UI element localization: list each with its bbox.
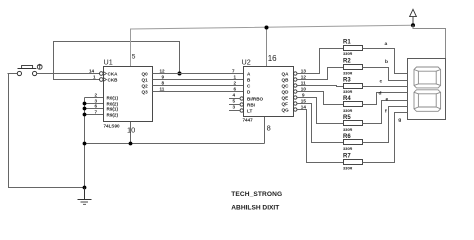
wire Q1 to U2 B xyxy=(153,79,244,81)
svg-text:16: 16 xyxy=(268,54,277,63)
IC U1 74LS90 body xyxy=(104,67,153,122)
svg-text:10: 10 xyxy=(301,86,307,91)
svg-text:14: 14 xyxy=(89,69,95,74)
wire U1 reset pins bus xyxy=(85,98,104,188)
svg-text:R0(1): R0(1) xyxy=(107,95,119,100)
wire U2 pin16 drop from VCC rail xyxy=(266,27,268,66)
svg-text:8: 8 xyxy=(267,124,271,133)
wire R2 to display segment b xyxy=(362,68,407,81)
IC U2 7447 body xyxy=(244,67,294,117)
svg-text:5: 5 xyxy=(233,99,236,104)
power terminal VCC arrow xyxy=(410,9,417,25)
svg-text:1: 1 xyxy=(93,75,96,80)
svg-text:11: 11 xyxy=(301,80,306,85)
svg-text:R9(1): R9(1) xyxy=(107,106,119,111)
svg-text:b: b xyxy=(385,59,388,65)
junction dot U1 pin10 at bus xyxy=(129,142,133,146)
svg-text:TECH_STRONG: TECH_STRONG xyxy=(231,191,282,198)
svg-text:f: f xyxy=(385,109,387,115)
wire QE to R5 xyxy=(297,98,343,124)
U2 pins 4 5 3 numbers xyxy=(233,93,236,110)
svg-text:R7: R7 xyxy=(343,154,351,160)
svg-text:CKA: CKA xyxy=(108,71,119,76)
svg-text:12: 12 xyxy=(301,74,307,79)
node junction dot Q0 to CKB xyxy=(178,72,182,76)
svg-text:U2: U2 xyxy=(242,58,251,67)
svg-text:74LS90: 74LS90 xyxy=(104,124,121,129)
svg-text:Q1: Q1 xyxy=(142,77,149,82)
svg-text:R5: R5 xyxy=(343,115,351,121)
ground symbol xyxy=(78,188,92,205)
svg-text:4: 4 xyxy=(233,93,236,98)
svg-text:9: 9 xyxy=(302,92,305,97)
wire Q0 to U2 A xyxy=(153,73,244,75)
svg-text:g: g xyxy=(398,118,401,123)
wire R4 to display segment d xyxy=(362,93,407,105)
junction dot VCC at power terminal xyxy=(411,23,415,27)
wire R3 to display segment c xyxy=(362,86,407,88)
svg-text:QD: QD xyxy=(282,89,290,94)
svg-text:Q2: Q2 xyxy=(142,83,149,88)
svg-text:R6: R6 xyxy=(343,134,351,140)
display pin stubs xyxy=(400,74,408,113)
svg-text:BI/RBO: BI/RBO xyxy=(247,96,264,101)
wire R1 to display segment a xyxy=(362,49,407,74)
svg-text:330R: 330R xyxy=(343,89,352,94)
junction dot VCC rail at U2 pin16 xyxy=(265,26,269,30)
svg-text:RBI: RBI xyxy=(247,102,255,107)
svg-text:QG: QG xyxy=(282,107,290,112)
junction dot ground rail xyxy=(83,186,87,190)
U1 left pin numbers xyxy=(89,69,98,115)
wire QA to R1 xyxy=(297,49,343,74)
svg-text:13: 13 xyxy=(301,68,307,73)
svg-text:330R: 330R xyxy=(343,165,352,170)
wire CKB feedback loop from Q0 node xyxy=(54,42,180,80)
wire QD to R4 xyxy=(297,92,343,105)
wire Q3 to U2 D xyxy=(153,91,244,93)
U1 clock marks xyxy=(104,72,107,82)
resistor R2 xyxy=(344,65,363,70)
U2 output bubbles QA-QG xyxy=(294,72,297,111)
wire switch to U1 CKA pin14 xyxy=(37,73,100,75)
svg-text:330R: 330R xyxy=(343,146,352,151)
resistor R1 xyxy=(344,46,363,51)
svg-text:2: 2 xyxy=(95,93,98,98)
U1 CKB bubble pin1 xyxy=(100,78,104,82)
svg-text:10: 10 xyxy=(127,125,135,134)
U2 RBI pin5 stub xyxy=(240,103,243,106)
svg-text:330R: 330R xyxy=(343,70,352,75)
wire U1 pin5 to VCC rail (sloped) xyxy=(131,25,414,66)
display digit lower loop inner xyxy=(418,94,436,107)
push button SW1 xyxy=(17,64,42,75)
resistor R5 xyxy=(344,121,363,126)
svg-text:R2: R2 xyxy=(343,59,351,65)
svg-text:9: 9 xyxy=(162,75,165,80)
svg-text:QB: QB xyxy=(282,77,290,82)
resistor R6 xyxy=(344,140,363,145)
svg-text:R9(2): R9(2) xyxy=(107,112,119,117)
wire VCC rail to display common anode xyxy=(413,25,446,58)
svg-text:6: 6 xyxy=(95,104,98,109)
wire QG to R7 xyxy=(297,110,343,163)
svg-text:R1: R1 xyxy=(343,40,351,46)
U1 pin name labels xyxy=(107,71,149,117)
svg-text:6: 6 xyxy=(234,87,237,92)
wire switch left terminal down to ground rail xyxy=(8,74,85,188)
U2 LT pin3 stub xyxy=(240,109,243,112)
svg-text:14: 14 xyxy=(301,104,307,109)
wire R5 to display segment e xyxy=(362,101,407,124)
U2 output pin numbers xyxy=(301,68,307,109)
svg-text:d: d xyxy=(379,91,382,97)
wire QF to R6 xyxy=(297,104,343,143)
display digit upper loop outer xyxy=(414,67,441,111)
U1 CKA bubble pin14 xyxy=(100,72,104,76)
wire Q2 to U2 C xyxy=(153,85,244,87)
svg-text:LT: LT xyxy=(247,108,252,113)
svg-text:e: e xyxy=(386,97,389,102)
display digit lower loop outer xyxy=(414,90,441,112)
7-segment display body xyxy=(408,59,446,120)
svg-text:a: a xyxy=(385,42,388,47)
svg-text:8: 8 xyxy=(162,81,165,86)
junction dots reset bus xyxy=(83,102,87,106)
svg-text:12: 12 xyxy=(160,69,166,74)
svg-text:QE: QE xyxy=(282,95,289,100)
svg-text:Q0: Q0 xyxy=(142,71,149,76)
resistor R4 xyxy=(344,102,363,107)
svg-text:7447: 7447 xyxy=(243,118,254,123)
svg-text:R4: R4 xyxy=(343,96,351,102)
wire ground bus U1 pin10 U2 pin8 xyxy=(85,117,265,144)
svg-text:15: 15 xyxy=(301,98,307,103)
resistor R3 xyxy=(344,84,363,89)
wire R7 to display segment g xyxy=(362,113,407,163)
svg-text:U1: U1 xyxy=(104,58,113,67)
svg-text:11: 11 xyxy=(160,87,165,92)
svg-text:QA: QA xyxy=(282,71,290,76)
display digit segment separators xyxy=(414,70,441,109)
svg-text:330R: 330R xyxy=(343,108,352,113)
U2 BI/RBO pin4 stub xyxy=(240,97,243,100)
wire R6 to display segment f xyxy=(362,107,407,143)
svg-text:3: 3 xyxy=(233,105,236,110)
svg-text:Q3: Q3 xyxy=(142,89,149,94)
U2 pin name labels xyxy=(247,71,289,113)
svg-text:QC: QC xyxy=(282,83,290,88)
wire QC to R3 xyxy=(297,86,343,87)
wire QB to R2 xyxy=(297,68,343,80)
display digit upper loop inner xyxy=(418,71,436,84)
svg-text:ABHILSH DIXIT: ABHILSH DIXIT xyxy=(231,204,279,211)
resistor R7 xyxy=(344,160,363,165)
svg-text:CKB: CKB xyxy=(108,77,119,82)
svg-text:QF: QF xyxy=(282,101,289,106)
svg-text:1: 1 xyxy=(234,75,237,80)
svg-text:7: 7 xyxy=(95,110,98,115)
junction dot ground bus left xyxy=(83,142,87,146)
svg-text:2: 2 xyxy=(234,81,237,86)
svg-text:R3: R3 xyxy=(343,78,351,84)
svg-text:330R: 330R xyxy=(343,51,352,56)
Q0-Q3 wire pin numbers xyxy=(160,69,237,92)
svg-text:330R: 330R xyxy=(343,127,352,132)
svg-text:7: 7 xyxy=(232,69,235,74)
svg-text:5: 5 xyxy=(132,54,136,61)
svg-text:c: c xyxy=(380,80,383,85)
